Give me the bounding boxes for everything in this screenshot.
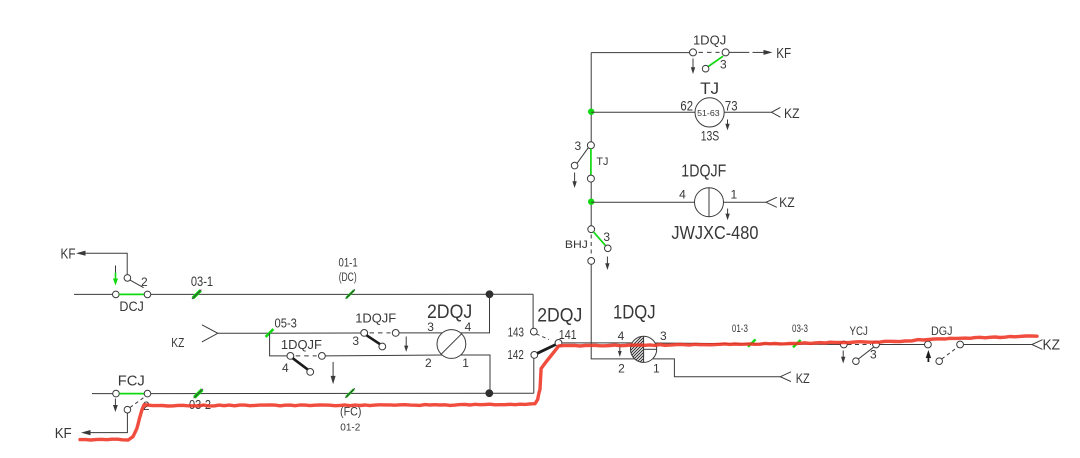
svg-text:KF: KF bbox=[61, 246, 76, 262]
wire: upper row to 143 bbox=[532, 294, 534, 328]
green junction dot (TJ row) bbox=[588, 109, 594, 115]
wire: 1DQJ pin 1 to KZ bbox=[653, 359, 791, 382]
svg-text:3: 3 bbox=[575, 139, 582, 153]
svg-text:141: 141 bbox=[559, 328, 577, 342]
svg-text:51-63: 51-63 bbox=[697, 108, 720, 118]
svg-text:TJ: TJ bbox=[700, 79, 719, 98]
svg-text:KZ: KZ bbox=[1042, 337, 1060, 354]
wire: lower line up to 142 bbox=[533, 358, 535, 393]
green mark 05-3 bbox=[266, 329, 274, 337]
contact FCJ bbox=[113, 390, 151, 413]
svg-text:DGJ: DGJ bbox=[931, 326, 953, 338]
green mark 03-1 bbox=[192, 290, 201, 299]
wire: 1DQJ pin 3 to right KZ bbox=[655, 343, 840, 345]
green junction dot (1DQJF row) bbox=[588, 199, 594, 205]
wire: junction to 2DQJ pin 4 bbox=[461, 294, 490, 333]
contact TJ bbox=[571, 142, 594, 188]
svg-text:01-2: 01-2 bbox=[340, 422, 360, 433]
green mark 03-2 bbox=[194, 389, 203, 398]
contact DGJ bbox=[925, 341, 964, 364]
svg-text:01-3: 01-3 bbox=[732, 323, 748, 335]
svg-text:142: 142 bbox=[507, 348, 523, 362]
svg-text:(FC): (FC) bbox=[340, 407, 362, 419]
highlighted route (red) bbox=[80, 336, 1037, 440]
svg-text:JWJXC-480: JWJXC-480 bbox=[671, 223, 758, 243]
svg-text:KZ: KZ bbox=[796, 370, 810, 386]
svg-text:TJ: TJ bbox=[596, 156, 608, 168]
svg-text:KZ: KZ bbox=[779, 194, 795, 210]
contact 1DQJF (lower, pin 4) bbox=[287, 353, 443, 385]
wire: branch down to lower 1DQJF bbox=[270, 333, 287, 356]
svg-text:3: 3 bbox=[603, 230, 610, 244]
arrow (1DQJ coil left) bbox=[618, 345, 622, 358]
svg-text:KF: KF bbox=[55, 425, 72, 442]
svg-text:01-1: 01-1 bbox=[339, 256, 358, 270]
svg-text:1DQJF: 1DQJF bbox=[681, 161, 726, 181]
relay coil TJ bbox=[591, 98, 771, 131]
svg-text:4: 4 bbox=[465, 320, 472, 334]
relay coil 1DQJ bbox=[626, 332, 657, 379]
svg-text:DCJ: DCJ bbox=[119, 298, 144, 314]
contact YCJ bbox=[840, 341, 879, 364]
svg-text:BHJ: BHJ bbox=[565, 239, 588, 251]
wire: 141 to 1DQJ pin 4 bbox=[562, 342, 633, 344]
wire: top-left KF exit line bbox=[76, 251, 127, 275]
terminal KZ (TJ row) bbox=[772, 107, 781, 117]
green mark 03-3 bbox=[793, 340, 801, 347]
relay coil 2DQJ bbox=[437, 330, 466, 359]
svg-text:KF: KF bbox=[776, 46, 791, 62]
wire: YCJ to DGJ bbox=[879, 344, 924, 346]
svg-text:73: 73 bbox=[725, 97, 738, 113]
svg-text:3: 3 bbox=[427, 320, 434, 334]
svg-text:4: 4 bbox=[679, 188, 686, 202]
junction dot (lower) bbox=[485, 389, 493, 397]
contact DCJ bbox=[113, 266, 151, 298]
junction dot (upper, to 2DQJ pin4) bbox=[486, 290, 494, 298]
relay coil 1DQJF bbox=[591, 188, 766, 221]
contact 2DQJ 143-141-142 bbox=[530, 328, 562, 358]
svg-text:3: 3 bbox=[720, 57, 727, 71]
svg-text:3: 3 bbox=[660, 329, 667, 343]
green mark 01-2/FC bbox=[345, 388, 354, 397]
svg-text:62: 62 bbox=[680, 97, 693, 113]
wire: main vertical bus x=591 bbox=[591, 53, 689, 359]
svg-text:1DQJ: 1DQJ bbox=[693, 32, 726, 47]
contact BHJ bbox=[588, 226, 611, 270]
svg-text:YCJ: YCJ bbox=[850, 326, 868, 338]
svg-text:1: 1 bbox=[462, 356, 469, 370]
svg-text:4: 4 bbox=[282, 361, 289, 375]
wire: main upper line (KF row) bbox=[74, 293, 533, 295]
green mark 01-1 bbox=[346, 289, 355, 298]
svg-text:03-3: 03-3 bbox=[792, 323, 808, 335]
svg-text:(DC): (DC) bbox=[339, 272, 357, 284]
wire: 2DQJ pin 1 to lower junction bbox=[461, 355, 490, 389]
wire: DGJ to right KZ bbox=[964, 340, 1043, 350]
green mark 01-3 bbox=[748, 339, 756, 346]
svg-text:2DQJ: 2DQJ bbox=[537, 306, 582, 327]
svg-text:KZ: KZ bbox=[784, 105, 800, 121]
contact 1DQJ (top, pin 3) bbox=[690, 49, 773, 74]
svg-text:1: 1 bbox=[653, 362, 660, 376]
wire: bottom line (KF row) bbox=[92, 392, 534, 394]
svg-text:3: 3 bbox=[352, 334, 359, 348]
svg-text:03-1: 03-1 bbox=[191, 273, 213, 289]
svg-text:2: 2 bbox=[425, 356, 432, 370]
svg-text:1DQJF: 1DQJF bbox=[281, 337, 322, 352]
contact 1DQJF (upper, pin 3) bbox=[361, 330, 443, 352]
svg-text:2: 2 bbox=[618, 362, 625, 376]
svg-text:FCJ: FCJ bbox=[118, 373, 145, 390]
terminal KZ (1DQJF row) bbox=[766, 197, 777, 207]
svg-text:13S: 13S bbox=[701, 129, 720, 144]
svg-text:143: 143 bbox=[508, 325, 524, 339]
svg-text:1DQJ: 1DQJ bbox=[613, 303, 656, 324]
svg-text:3: 3 bbox=[870, 348, 877, 362]
svg-text:4: 4 bbox=[618, 329, 625, 343]
wire: FCJ to bottom KF exit bbox=[81, 413, 127, 435]
svg-text:1DQJF: 1DQJF bbox=[355, 310, 396, 325]
terminal KZ (left feed) bbox=[202, 325, 361, 342]
svg-text:1: 1 bbox=[731, 188, 738, 202]
svg-text:2: 2 bbox=[141, 275, 148, 289]
svg-text:KZ: KZ bbox=[171, 335, 184, 350]
svg-text:05-3: 05-3 bbox=[275, 317, 297, 331]
